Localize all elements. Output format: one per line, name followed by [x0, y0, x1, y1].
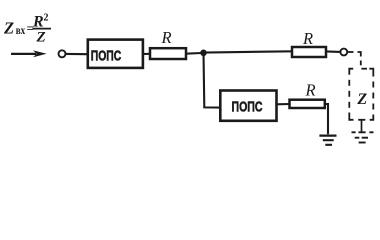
- wire R1 to node A: [186, 52, 201, 55]
- svg-text:Z: Z: [3, 19, 14, 38]
- wire R3 to ground: [325, 104, 328, 134]
- resistor R1: [150, 48, 186, 59]
- wire node A down to U2: [204, 53, 221, 108]
- resistor R2: [292, 47, 326, 57]
- dashed wire output terminal to Z box: [348, 52, 361, 65]
- input arrow: [11, 50, 47, 57]
- svg-text:R: R: [305, 81, 316, 100]
- svg-text:Z: Z: [356, 91, 367, 108]
- ground: [319, 136, 336, 145]
- ground (dashed, under Z): [352, 132, 374, 142]
- output terminal: [340, 49, 347, 56]
- svg-text:вх: вх: [16, 23, 26, 37]
- NIC block U2 (ПОПС): [220, 91, 276, 121]
- wire U1 to R1: [143, 53, 151, 55]
- NIC block U1 (ПОПС): [88, 40, 143, 68]
- wire U2 to R3: [277, 103, 291, 105]
- wire node A to R2: [204, 51, 293, 52]
- svg-text:2: 2: [44, 13, 49, 24]
- svg-text:R: R: [302, 29, 313, 48]
- svg-text:ПОПС: ПОПС: [91, 47, 122, 64]
- label Zvx formula: Zвх = R²/Z: [3, 13, 51, 46]
- impedance Z (dashed box): [349, 69, 373, 120]
- dashed wire Z box to ground: [361, 120, 363, 132]
- svg-text:ПОПС: ПОПС: [232, 98, 263, 115]
- resistor R3: [290, 100, 325, 108]
- input terminal: [59, 50, 66, 57]
- node A junction: [200, 50, 207, 57]
- wire R2 to output terminal: [326, 50, 340, 53]
- svg-text:Z: Z: [36, 30, 46, 46]
- wire input terminal to U1: [66, 53, 88, 55]
- svg-text:R: R: [161, 28, 172, 47]
